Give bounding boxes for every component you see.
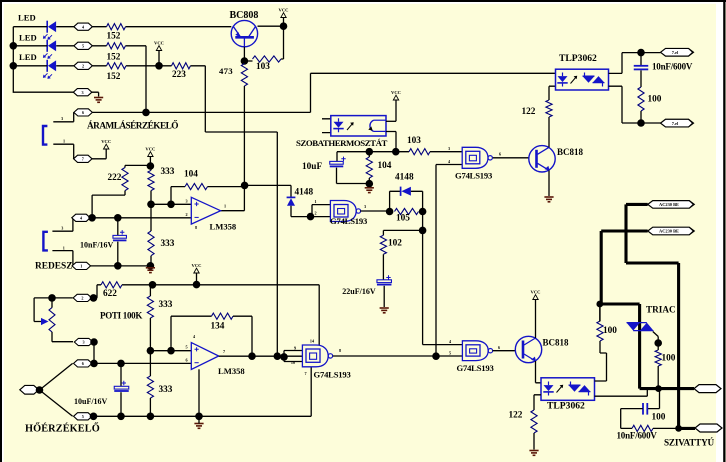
- wire 134 left leg: [171, 316, 212, 351]
- label G74LS193 b: [330, 216, 367, 226]
- svg-text:222: 222: [108, 173, 122, 183]
- label 223: [172, 70, 186, 80]
- wire oval3-gnd: [92, 92, 99, 96]
- opto U3 phototransistor: [368, 120, 385, 131]
- svg-text:REDESZ: REDESZ: [35, 262, 73, 272]
- wire 622 rail: [97, 285, 319, 345]
- wire snubber1 top: [640, 53, 642, 65]
- svg-text:333: 333: [159, 300, 173, 310]
- power VCC 4: [145, 147, 155, 166]
- svg-text:SZIVATTYÚ: SZIVATTYÚ: [664, 438, 715, 448]
- wire 103 to gate1: [430, 151, 462, 153]
- wire out1 to flag bottom: [641, 122, 661, 124]
- wire row2 segments: [13, 46, 146, 113]
- pin labels gate3: [449, 339, 500, 356]
- wire triac top thick: [600, 304, 640, 389]
- connector pad 13: [74, 413, 93, 420]
- wire Q2 collector: [548, 117, 550, 147]
- svg-text:AC230 BE: AC230 BE: [659, 229, 679, 234]
- junction mid rail join: [274, 352, 282, 360]
- wire triac gate: [653, 332, 658, 344]
- label 222: [108, 173, 122, 183]
- connector pad 9 (redesz-): [72, 262, 91, 269]
- svg-text:223: 223: [172, 70, 186, 80]
- svg-text:7.el: 7.el: [672, 50, 679, 55]
- wire snubber2 left leg: [621, 409, 643, 429]
- wire pump connector link: [679, 427, 695, 430]
- capacitor C4 22uF/16V: [377, 275, 392, 284]
- svg-text:10nF/600V: 10nF/600V: [617, 430, 658, 440]
- wire row1 segments: [13, 26, 231, 28]
- connector flag AC230 1: [648, 201, 695, 209]
- svg-text:BC818: BC818: [557, 147, 584, 157]
- connector flag AC230 2: [648, 227, 695, 235]
- opto U5 light arrow: [557, 385, 564, 393]
- LED D1: [43, 21, 56, 40]
- svg-text:333: 333: [159, 385, 173, 395]
- junction gate2 input: [307, 213, 315, 221]
- label SZIVATTYU: [664, 438, 715, 448]
- connector pad 3 (gnd): [73, 89, 92, 96]
- wire poti bottom: [52, 341, 73, 343]
- label ARAMLASERZEKELO: [87, 120, 178, 132]
- label 333 a: [161, 167, 175, 177]
- label TLP3062 b: [547, 400, 585, 411]
- capacitor C3 10nF/600V: [634, 66, 649, 70]
- wire 10uF2 top leg: [120, 363, 122, 386]
- svg-text:2: 2: [185, 212, 187, 217]
- svg-text:LED: LED: [18, 12, 36, 22]
- capacitor C6 10nF/600V: [643, 403, 647, 415]
- wire 22uF gnd leg: [383, 286, 385, 307]
- junction base-473: [241, 57, 249, 65]
- power VCC 1: [154, 41, 164, 66]
- svg-text:LM358: LM358: [218, 366, 245, 376]
- svg-text:7: 7: [223, 349, 225, 354]
- label 152 c: [107, 72, 121, 82]
- junction g2 cap: [117, 413, 125, 421]
- ground oval pad: [94, 98, 103, 103]
- wire poti top: [52, 297, 73, 299]
- power VCC 6: [192, 263, 202, 284]
- wire op2 power stub: [198, 369, 200, 416]
- label 10nF/600V a: [652, 61, 693, 71]
- connector pad 4 (row1): [74, 23, 93, 30]
- connector arrow HOERZ: [20, 385, 39, 394]
- resistor R23 100 gate: [655, 343, 661, 389]
- wire 10uF bottom leg: [337, 168, 370, 184]
- svg-text:3: 3: [61, 225, 63, 230]
- svg-text:2: 2: [82, 63, 84, 68]
- wire 10uF2 bottom leg: [120, 392, 122, 416]
- junction g4 op2: [195, 413, 203, 421]
- pin labels gate2: [314, 199, 366, 216]
- wire Q3 emitter to opto: [536, 361, 542, 383]
- wire oval11 down: [93, 342, 95, 363]
- junction pump node: [675, 425, 682, 432]
- wire minus2 line: [92, 362, 191, 364]
- label 333 c: [159, 300, 173, 310]
- connector flag 7el top: [661, 48, 694, 56]
- label TRIAC: [646, 305, 676, 315]
- svg-text:10nF/600V: 10nF/600V: [652, 61, 693, 71]
- svg-text:3: 3: [82, 90, 84, 95]
- junction feedback node: [241, 182, 249, 190]
- wire szoba pins: [322, 119, 331, 133]
- label 22uF/16V: [342, 287, 376, 296]
- junction out1 bottom: [637, 119, 645, 127]
- pin labels opamp2: [185, 334, 225, 363]
- svg-text:2: 2: [81, 296, 83, 301]
- wire hoerz diagonals: [40, 363, 73, 416]
- wire 473 to lm358 output: [221, 86, 245, 211]
- junction plus2 divider: [147, 347, 155, 355]
- svg-text:152: 152: [107, 72, 121, 82]
- wire gate1 out to Q2 base: [493, 157, 529, 159]
- resistor R18 333 u: [147, 285, 153, 351]
- wire snubber1 mid: [640, 70, 642, 87]
- svg-text:5: 5: [449, 351, 451, 356]
- connector pad 12: [74, 360, 93, 367]
- junction vcc divider: [147, 162, 155, 170]
- connector pad 6: [74, 109, 93, 116]
- label 100 b: [603, 326, 617, 336]
- junction cap2 top: [117, 360, 125, 368]
- svg-text:122: 122: [509, 410, 523, 420]
- label 104 b: [378, 161, 392, 171]
- svg-text:333: 333: [161, 167, 175, 177]
- junction out1 top: [637, 49, 645, 57]
- label REDESZ: [35, 262, 73, 272]
- resistor R8 333 upper: [148, 166, 154, 204]
- wire parallel loop right: [411, 191, 423, 211]
- svg-text:1: 1: [63, 245, 65, 250]
- label 122 a: [522, 107, 536, 117]
- junction oval11 out: [90, 338, 98, 346]
- wire 104 feedback left leg: [171, 187, 185, 205]
- svg-text:104: 104: [184, 170, 198, 180]
- connector bracket J1: [43, 126, 47, 145]
- svg-text:1: 1: [80, 264, 82, 269]
- LED D3: [43, 60, 56, 79]
- wire 223 to mid rail: [191, 66, 278, 357]
- wire bracket2 pin1: [52, 245, 73, 266]
- label 473: [219, 66, 233, 76]
- wire gate2 out: [360, 210, 389, 212]
- svg-text:105: 105: [396, 214, 410, 224]
- resistor R3 152: [107, 63, 127, 69]
- svg-text:8: 8: [195, 225, 197, 230]
- label LED3: [19, 52, 37, 62]
- wire op2 output: [219, 355, 303, 357]
- svg-text:152: 152: [107, 31, 121, 41]
- wire poti wiper loop: [34, 298, 52, 322]
- label LED2: [19, 32, 37, 42]
- wire bracket1 pin1: [53, 139, 73, 159]
- pin labels gate4: [291, 339, 341, 376]
- svg-text:G74LS193: G74LS193: [455, 171, 492, 181]
- wire U4 pin4 route: [609, 53, 642, 74]
- optocoupler U4 box: [556, 69, 609, 90]
- svg-text:6: 6: [498, 345, 500, 350]
- wire 222 top link: [125, 165, 150, 167]
- wire vcc node down: [283, 26, 285, 59]
- svg-text:10nF/16V: 10nF/16V: [80, 240, 114, 249]
- junction triac gate: [654, 339, 662, 347]
- svg-text:7.el: 7.el: [672, 121, 679, 126]
- opto U3 light arrow: [347, 122, 354, 130]
- wire redesz gnd line: [90, 265, 150, 267]
- wire U4 pin3 route: [609, 86, 642, 123]
- svg-text:5: 5: [82, 414, 84, 419]
- svg-text:134: 134: [211, 321, 225, 331]
- resistor R14 100: [638, 87, 644, 111]
- svg-text:5: 5: [82, 43, 84, 48]
- resistor R15 105: [395, 208, 419, 214]
- junction gate3 in: [432, 352, 440, 360]
- wire parallel loop left: [390, 191, 401, 211]
- potentiometer POTI arrow: [41, 318, 49, 325]
- junction g1 oval13: [90, 413, 98, 421]
- resistor R19 333 l: [147, 351, 153, 417]
- svg-text:3: 3: [185, 198, 187, 203]
- wire 102 to 22uF: [382, 254, 384, 280]
- resistor R7 222: [122, 168, 128, 191]
- junction hoerz: [36, 386, 44, 394]
- junction BC808 vcc node: [280, 22, 288, 30]
- svg-text:G74LS193: G74LS193: [330, 216, 367, 226]
- svg-text:6: 6: [82, 110, 84, 115]
- svg-text:TLP3062: TLP3062: [559, 53, 597, 64]
- label HOERZEKELO: [25, 422, 100, 434]
- label 103 a: [256, 62, 270, 72]
- label 102: [388, 238, 402, 248]
- wire out1 to flag top: [641, 52, 661, 54]
- svg-text:100: 100: [662, 353, 676, 363]
- resistor R4 223: [172, 63, 191, 69]
- svg-text:104: 104: [378, 161, 392, 171]
- svg-text:100: 100: [652, 412, 666, 422]
- label 4148 a: [295, 188, 314, 198]
- junction 102 tap: [419, 227, 427, 235]
- transistor Q3 BC818: [515, 336, 541, 362]
- label 100 a: [648, 94, 662, 104]
- wire 102 branch: [383, 230, 422, 235]
- label 134: [211, 321, 225, 331]
- opto U4 light arrow: [571, 76, 578, 84]
- junction redesz plus node: [88, 214, 96, 222]
- opto U5 led: [543, 382, 553, 396]
- resistor R5 103: [253, 56, 282, 62]
- ground Q2 emitter: [544, 197, 553, 202]
- wire minus input line: [92, 217, 191, 219]
- opto U3 led: [333, 118, 343, 132]
- svg-text:103: 103: [256, 62, 270, 72]
- label 122 b: [509, 410, 523, 420]
- label LM358 a: [210, 221, 237, 231]
- label BC818 b: [543, 337, 570, 347]
- resistor R10 333 lower: [148, 204, 154, 265]
- label 333 b: [161, 239, 175, 249]
- label G74LS193 d: [457, 363, 494, 373]
- label 152 b: [107, 52, 121, 62]
- junction szoba emitter node: [392, 148, 400, 156]
- wire oval7-vcc: [92, 149, 106, 159]
- gate U2C G74LS193: [302, 345, 332, 367]
- junction poti top: [48, 294, 56, 302]
- opto U4 triac: [583, 73, 605, 87]
- wire y112 rail: [92, 73, 555, 112]
- transistor Q1 BC808: [231, 20, 257, 46]
- pin labels opamp1: [185, 198, 226, 230]
- ground 122b: [529, 451, 538, 456]
- resistor R20 134: [212, 313, 234, 319]
- svg-text:LED: LED: [19, 32, 37, 42]
- wire gnd rail y416: [92, 368, 311, 417]
- wire 100b top: [599, 304, 601, 321]
- wire bracket2 pin3: [52, 218, 73, 231]
- wire cap 10nF top leg: [117, 218, 119, 236]
- svg-text:100: 100: [648, 94, 662, 104]
- svg-text:6: 6: [82, 361, 84, 366]
- label 103 b: [407, 136, 421, 146]
- wire snubber1 bottom: [640, 111, 642, 123]
- junction plus2 fb: [167, 347, 175, 355]
- wire gate3 out: [493, 350, 516, 352]
- resistor R17 622: [101, 282, 122, 288]
- svg-text:LED: LED: [19, 52, 37, 62]
- wire LED common rail: [13, 27, 74, 93]
- wire U5 pin4 route: [595, 341, 607, 381]
- wire snubber2 right leg: [648, 389, 660, 409]
- op-amp U1A LM358: [191, 197, 220, 224]
- svg-text:1: 1: [314, 199, 316, 204]
- wire U5 pin3 route: [595, 390, 648, 396]
- svg-text:LM358: LM358: [210, 221, 237, 231]
- connector pad 8 (redesz+): [72, 214, 91, 221]
- wire U5 pin2 to 122: [534, 395, 541, 410]
- resistor R22 100: [597, 321, 603, 341]
- wire 134 right leg: [233, 316, 252, 356]
- diode D5 4148: [401, 187, 411, 196]
- wire snub to mains: [653, 427, 679, 429]
- wire oval10 up: [92, 285, 97, 298]
- optocoupler U5 box: [541, 378, 595, 401]
- gate U2A G74LS193: [330, 201, 360, 222]
- svg-text:102: 102: [388, 238, 402, 248]
- resistor R6 473: [241, 64, 247, 86]
- label 622: [103, 289, 117, 299]
- capacitor C5 10uF/16V: [114, 381, 129, 391]
- svg-text:22uF/16V: 22uF/16V: [342, 287, 376, 296]
- junction plus-feedback: [167, 201, 175, 209]
- svg-text:6: 6: [185, 358, 187, 363]
- junction vcc6: [193, 281, 201, 289]
- connector bracket J2: [43, 232, 48, 251]
- resistor R9 104: [185, 184, 208, 190]
- junction minus2 a: [90, 360, 98, 368]
- triac TR1: [627, 323, 654, 331]
- resistor R25 100 snub: [632, 425, 653, 431]
- svg-text:7: 7: [82, 156, 84, 161]
- gate U2D G74LS193: [462, 341, 492, 361]
- svg-text:103: 103: [407, 136, 421, 146]
- label 105: [396, 214, 410, 224]
- junction par right: [419, 208, 427, 216]
- wire 105 node down: [422, 212, 424, 345]
- svg-text:8: 8: [339, 348, 341, 353]
- gate U2B G74LS193: [462, 147, 492, 168]
- junction gate4 in split: [280, 353, 288, 361]
- label 100 e: [652, 412, 666, 422]
- power VCC 7: [531, 290, 541, 338]
- wire plus2 line: [150, 350, 191, 352]
- wire BC808 emitter to VCC: [258, 25, 284, 27]
- junction par left: [386, 208, 394, 216]
- wire szoba output rail: [337, 151, 409, 153]
- wire mains1 thick: [626, 204, 679, 428]
- opto U5 triac: [569, 382, 591, 396]
- svg-text:SZOBATHERMOSZTÁT: SZOBATHERMOSZTÁT: [296, 138, 387, 148]
- connector pad 10: [73, 294, 92, 301]
- junction poti top right: [90, 294, 98, 302]
- capacitor C1 10nF/16V: [113, 230, 127, 240]
- svg-text:10: 10: [291, 360, 295, 365]
- label 152 a: [107, 31, 121, 41]
- wire BC808 base node: [244, 47, 283, 61]
- resistor R12 103: [409, 149, 430, 155]
- wire plus input line: [151, 203, 191, 205]
- junction 333c top: [149, 281, 157, 289]
- diode D4 4148: [287, 197, 296, 205]
- capacitor C2 10uF: [330, 157, 346, 167]
- resistor R2 152: [107, 43, 126, 49]
- svg-text:POTI 100K: POTI 100K: [100, 311, 142, 321]
- junction 333b bottom: [147, 262, 155, 270]
- wire 122b to gnd: [533, 433, 535, 450]
- op-amp U1B LM358: [191, 343, 218, 370]
- svg-text:333: 333: [161, 239, 175, 249]
- power VCC 3: [279, 8, 289, 27]
- label 333 d: [159, 385, 173, 395]
- wire szoba emitter: [386, 132, 396, 152]
- junction 104 gnd: [366, 180, 374, 188]
- ground redesz: [146, 268, 155, 273]
- junction triac drive: [596, 301, 603, 308]
- wire 104 to output node: [208, 185, 245, 187]
- svg-text:TLP3062: TLP3062: [547, 400, 585, 411]
- svg-text:7: 7: [304, 371, 306, 376]
- label 10nF/16V: [80, 240, 114, 249]
- label LM358 b: [218, 366, 245, 376]
- label LED1: [18, 12, 36, 22]
- wire row3 segments: [13, 65, 171, 67]
- ground 22uF: [380, 308, 389, 313]
- svg-text:4148: 4148: [295, 188, 314, 198]
- svg-text:AC230 BE: AC230 BE: [659, 202, 679, 207]
- junction rail-row3: [10, 62, 18, 70]
- label BC818 a: [557, 147, 584, 157]
- wire 100b stub: [599, 304, 601, 322]
- connector pad 5 (row2): [74, 42, 93, 49]
- svg-text:9: 9: [294, 346, 296, 351]
- ground szoba: [365, 188, 374, 193]
- label 4148 b: [395, 173, 414, 183]
- wire gate3 top input: [423, 344, 463, 346]
- wire gate4 out: [333, 355, 463, 357]
- svg-text:G74LS193: G74LS193: [457, 363, 494, 373]
- connector flag pump 2: [695, 424, 722, 432]
